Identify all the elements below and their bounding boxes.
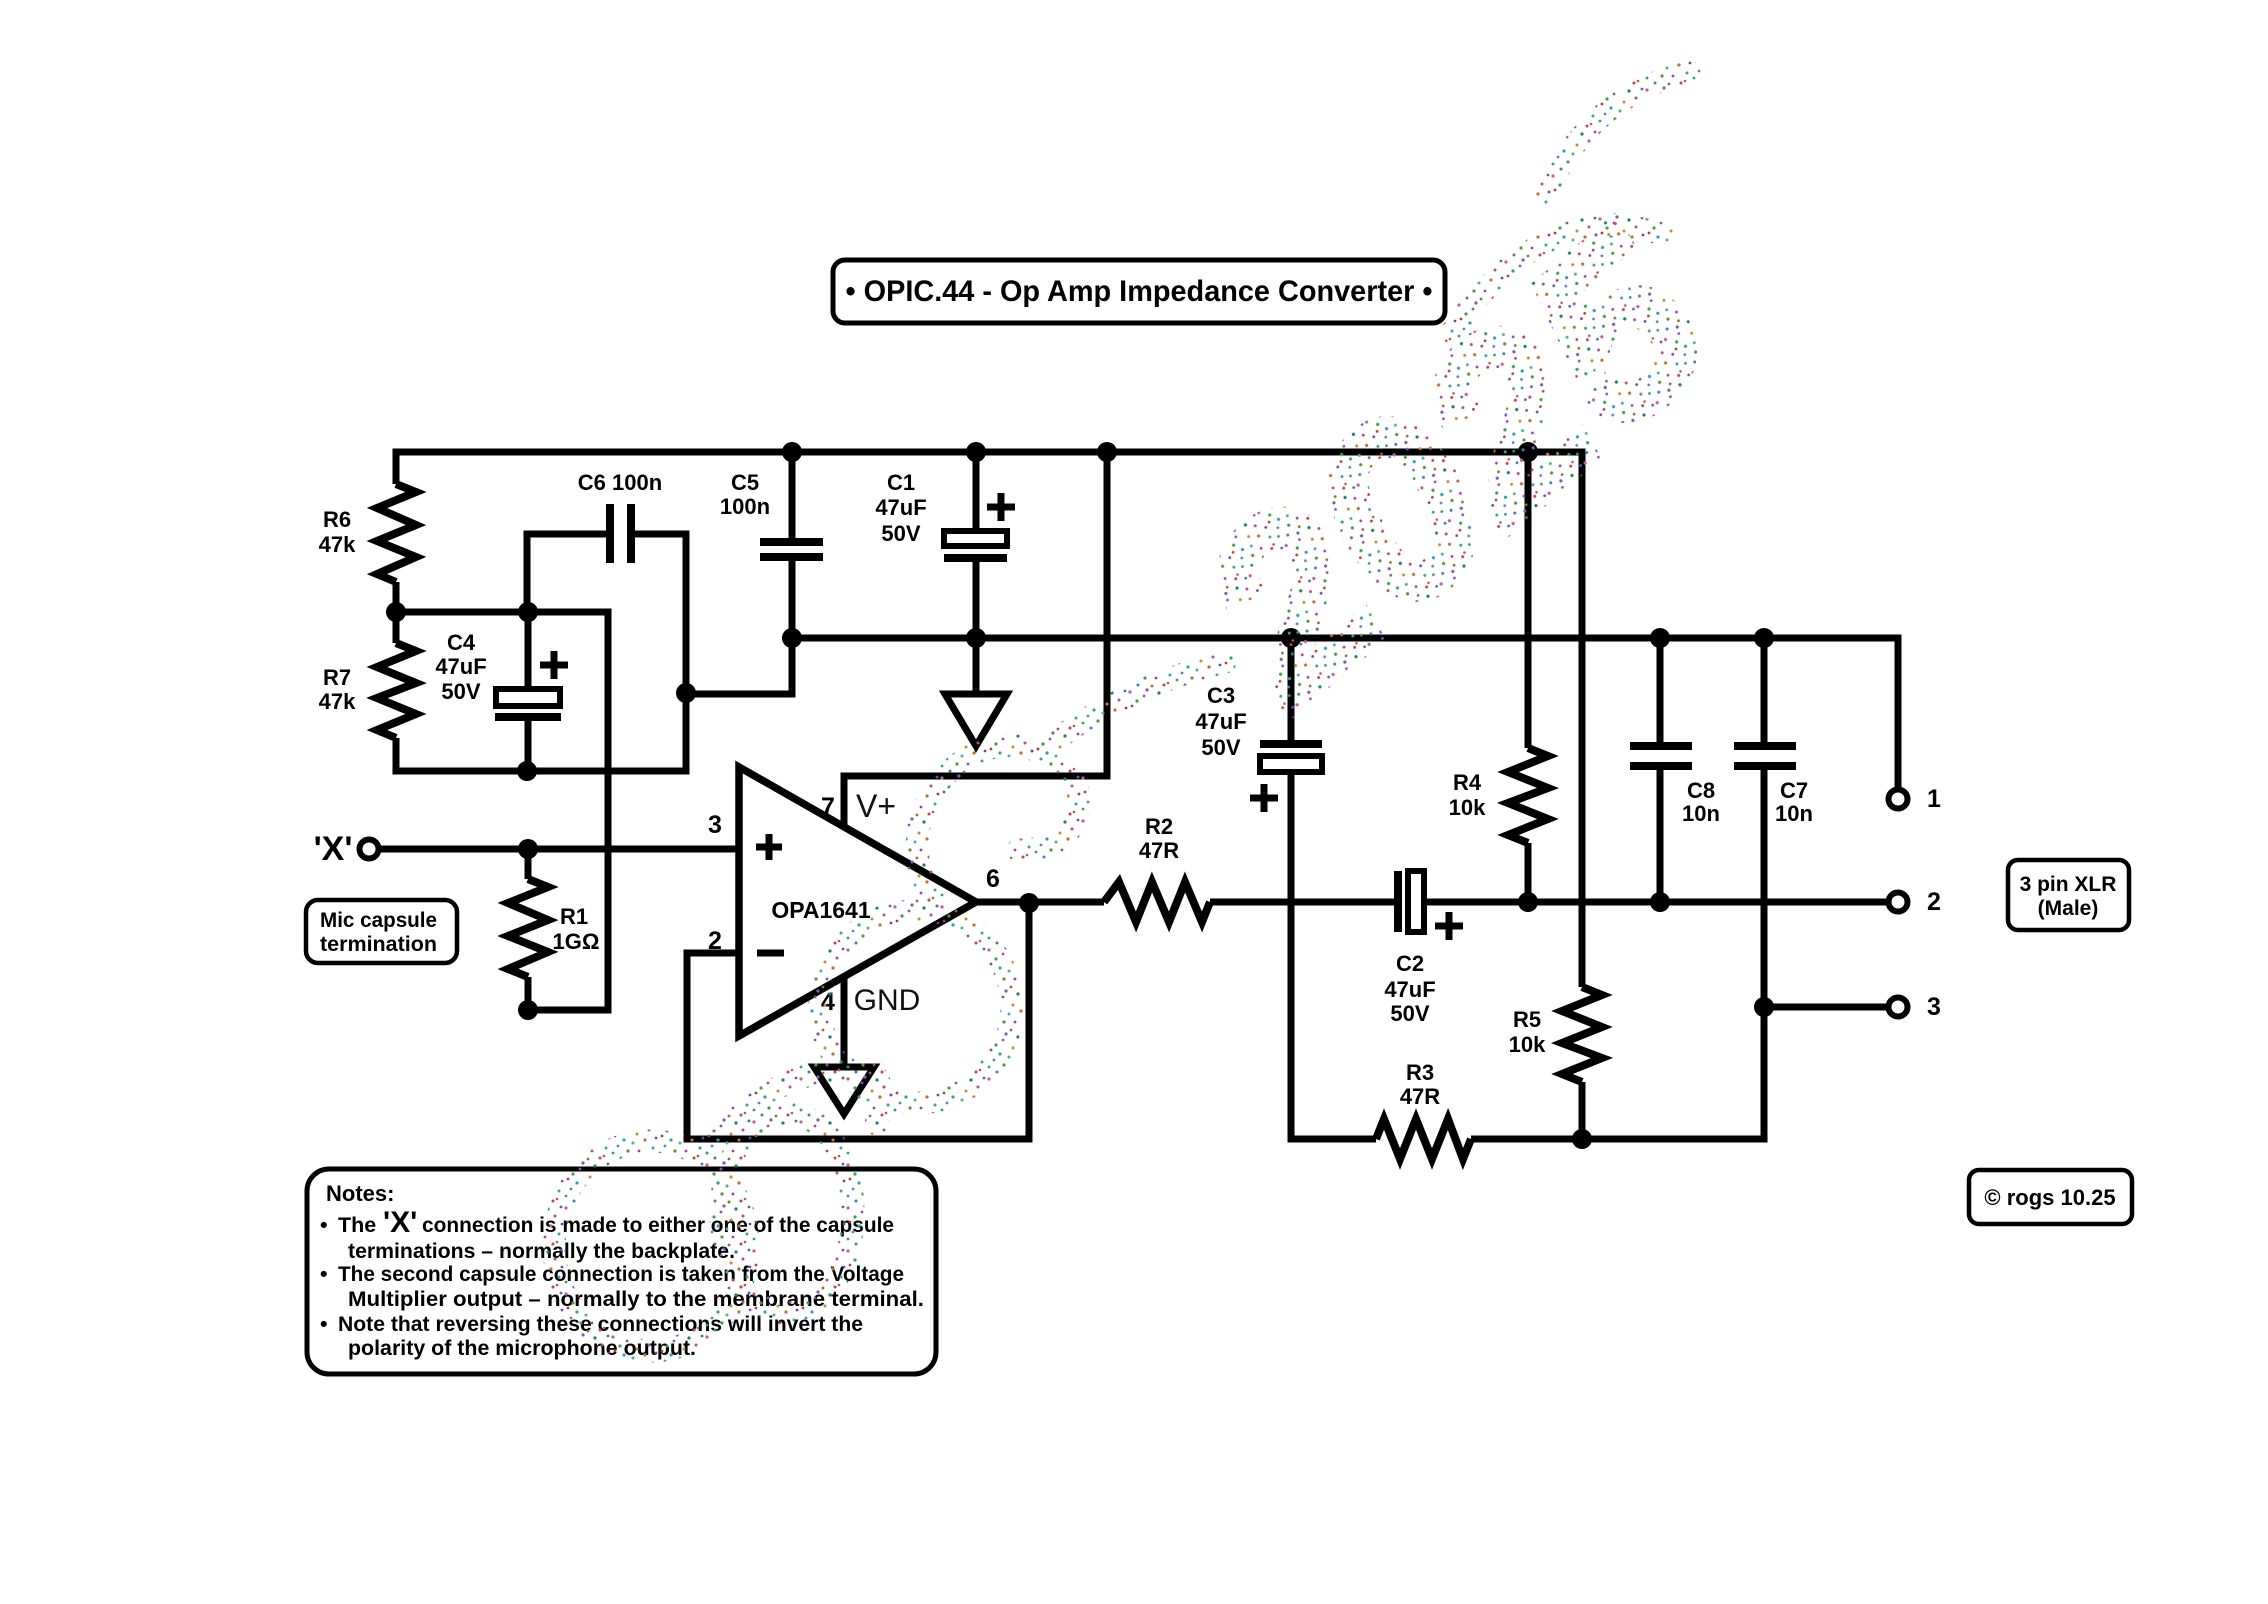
svg-text:47uF: 47uF xyxy=(875,495,926,520)
svg-text:7: 7 xyxy=(821,793,835,821)
svg-text:R6: R6 xyxy=(323,507,351,532)
svg-text:'X': 'X' xyxy=(383,1206,417,1239)
svg-text:Notes:: Notes: xyxy=(326,1181,394,1206)
svg-text:6: 6 xyxy=(986,865,1000,893)
svg-text:47k: 47k xyxy=(319,689,356,714)
svg-text:Mic capsule: Mic capsule xyxy=(320,909,437,932)
svg-text:•: • xyxy=(320,1312,328,1336)
svg-text:R4: R4 xyxy=(1453,770,1482,795)
svg-text:10n: 10n xyxy=(1775,801,1813,826)
svg-text:R7: R7 xyxy=(323,665,351,690)
svg-text:termination: termination xyxy=(320,933,437,956)
svg-text:1GΩ: 1GΩ xyxy=(553,929,600,954)
svg-text:47uF: 47uF xyxy=(435,654,486,679)
svg-text:R3: R3 xyxy=(1406,1060,1434,1085)
svg-text:50V: 50V xyxy=(881,521,920,546)
svg-text:C5: C5 xyxy=(731,470,759,495)
svg-text:47uF: 47uF xyxy=(1195,709,1246,734)
svg-text:2: 2 xyxy=(1927,888,1941,916)
svg-text:GND: GND xyxy=(854,984,921,1017)
svg-text:3: 3 xyxy=(1927,993,1941,1021)
svg-text:2: 2 xyxy=(708,927,722,955)
svg-text:C7: C7 xyxy=(1780,778,1808,803)
svg-text:C6 100n: C6 100n xyxy=(578,470,662,495)
svg-text:3: 3 xyxy=(708,811,722,839)
svg-text:47R: 47R xyxy=(1400,1084,1440,1109)
svg-text:C2: C2 xyxy=(1396,951,1424,976)
svg-text:C8: C8 xyxy=(1687,778,1715,803)
svg-text:• OPIC.44 - Op Amp Impedance C: • OPIC.44 - Op Amp Impedance Converter • xyxy=(846,275,1433,308)
svg-text:connection is made to either o: connection is made to either one of the … xyxy=(422,1213,894,1237)
svg-text:10k: 10k xyxy=(1449,795,1486,820)
svg-text:C4: C4 xyxy=(447,630,476,655)
svg-text:R1: R1 xyxy=(560,904,588,929)
svg-text:50V: 50V xyxy=(1390,1001,1429,1026)
svg-text:R2: R2 xyxy=(1145,814,1173,839)
svg-text:R5: R5 xyxy=(1513,1007,1541,1032)
svg-text:47uF: 47uF xyxy=(1384,977,1435,1002)
svg-text:V+: V+ xyxy=(856,788,896,824)
svg-text:•: • xyxy=(320,1262,328,1286)
svg-text:© rogs 10.25: © rogs 10.25 xyxy=(1984,1185,2115,1210)
svg-text:3 pin XLR: 3 pin XLR xyxy=(2020,873,2117,896)
svg-text:(Male): (Male) xyxy=(2038,897,2099,920)
svg-text:'X': 'X' xyxy=(314,830,353,868)
svg-text:1: 1 xyxy=(1927,785,1941,813)
svg-text:C3: C3 xyxy=(1207,683,1235,708)
svg-text:50V: 50V xyxy=(1201,735,1240,760)
svg-text:The: The xyxy=(338,1213,376,1237)
svg-text:47R: 47R xyxy=(1139,838,1179,863)
svg-text:•: • xyxy=(320,1213,328,1237)
svg-text:The second capsule connection: The second capsule connection is taken f… xyxy=(338,1262,904,1286)
svg-text:47k: 47k xyxy=(319,532,356,557)
svg-text:10k: 10k xyxy=(1509,1032,1546,1057)
svg-text:C1: C1 xyxy=(887,470,915,495)
svg-text:100n: 100n xyxy=(720,494,770,519)
svg-text:50V: 50V xyxy=(441,679,480,704)
svg-text:10n: 10n xyxy=(1682,801,1720,826)
svg-text:terminations – normally the ba: terminations – normally the backplate. xyxy=(348,1239,735,1263)
